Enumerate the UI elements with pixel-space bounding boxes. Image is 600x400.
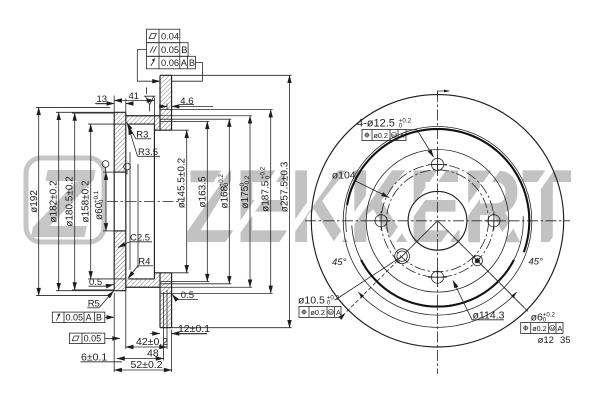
svg-text:0.05: 0.05	[66, 312, 84, 322]
svg-text:I: I	[145, 86, 148, 96]
top feature control frame stack	[147, 29, 180, 43]
circle d104	[387, 170, 489, 272]
svg-text:13: 13	[97, 94, 108, 105]
svg-text:ø182±0.2: ø182±0.2	[49, 180, 60, 223]
right dim extension lines	[172, 74, 292, 76]
svg-text:A: A	[181, 58, 188, 68]
svg-text:0.05: 0.05	[84, 333, 102, 343]
svg-text:ø163.5: ø163.5	[197, 176, 208, 208]
thick arc bottom (d175 edge)	[361, 260, 514, 307]
svg-text:ø257.5±0.3: ø257.5±0.3	[280, 161, 291, 212]
svg-text:ø145.5±0.2: ø145.5±0.2	[177, 157, 188, 208]
svg-text:-0.2: -0.2	[244, 175, 251, 186]
bottom-left FCFs	[52, 312, 105, 323]
svg-text:ø168: ø168	[219, 185, 230, 208]
svg-text:A: A	[336, 308, 341, 317]
svg-text:ø192: ø192	[29, 190, 40, 213]
svg-text:0: 0	[98, 199, 105, 203]
svg-text:0: 0	[327, 299, 331, 306]
watermark ZEKKERT logo block	[26, 149, 104, 258]
hole d10.5 at 225deg	[395, 249, 410, 264]
svg-text:M: M	[329, 310, 333, 315]
section hatch: transition ring top	[154, 124, 160, 130]
FCF leader loop	[137, 50, 151, 82]
svg-text:45°: 45°	[332, 257, 347, 268]
svg-text:0.06: 0.06	[161, 58, 179, 68]
hole d6 at 315deg	[472, 256, 482, 266]
bolt holes 4x d12.5	[428, 155, 447, 174]
svg-text:4-ø12.5: 4-ø12.5	[357, 118, 395, 130]
svg-text:ø60: ø60	[94, 202, 105, 220]
svg-text:12±0.1: 12±0.1	[178, 323, 210, 335]
svg-text:0: 0	[223, 182, 230, 186]
left dim extension lines	[36, 106, 110, 108]
bottom dimensions	[113, 293, 115, 372]
svg-text:ø10.5: ø10.5	[298, 295, 325, 307]
svg-text:A: A	[400, 131, 405, 140]
svg-text:42±0.2: 42±0.2	[136, 336, 168, 348]
svg-text:ø158±0.2: ø158±0.2	[81, 180, 92, 223]
circle d192	[343, 127, 532, 316]
svg-text:ø12: ø12	[538, 335, 554, 346]
centerline left view	[107, 201, 184, 203]
svg-text:ø180.5±0.2: ø180.5±0.2	[65, 176, 76, 227]
hub circle d60	[408, 191, 467, 250]
section outline	[113, 112, 115, 290]
svg-text:45°: 45°	[529, 257, 544, 268]
diameter dimension lines	[38, 107, 40, 295]
svg-text:B: B	[181, 45, 187, 55]
svg-text:ø0.2: ø0.2	[311, 308, 325, 317]
svg-text:0.05: 0.05	[161, 45, 179, 55]
svg-text:ø175: ø175	[240, 185, 251, 208]
circle d187.5 thin (top half)	[346, 129, 530, 232]
top dimensions 13 / 41 / 4.6	[113, 96, 115, 113]
svg-text:ø104: ø104	[332, 170, 356, 182]
right view centerlines	[437, 91, 439, 374]
svg-text:4.6: 4.6	[180, 96, 193, 107]
svg-text:A: A	[558, 324, 563, 333]
outer circle	[311, 95, 563, 347]
svg-text:B: B	[96, 312, 102, 322]
svg-text:A: A	[86, 312, 92, 322]
svg-text:ø187.5: ø187.5	[261, 180, 272, 212]
section hatch: band top	[160, 75, 172, 130]
svg-text:ø6: ø6	[531, 312, 543, 324]
svg-text:0: 0	[399, 122, 403, 129]
svg-text:ø0.2: ø0.2	[532, 324, 546, 333]
datum circles	[102, 161, 109, 168]
rotated diameter labels	[29, 190, 40, 213]
circle d145.5	[366, 150, 509, 293]
svg-text:ø0.2: ø0.2	[374, 131, 388, 140]
svg-text:M: M	[550, 326, 554, 331]
thick arc top (d187.5 edge)	[347, 129, 529, 252]
svg-text:M: M	[392, 133, 396, 138]
45deg radial lines	[402, 221, 437, 256]
bolt circle d114.3	[381, 164, 494, 277]
svg-text:B: B	[189, 58, 195, 68]
thin arc d175 lower half	[352, 216, 524, 306]
section hatch: bottom wall	[126, 279, 160, 287]
section hatch: flange upper part	[114, 112, 126, 172]
section hatch: band bottom	[160, 273, 172, 328]
section hatch: flange lower part	[114, 231, 126, 291]
svg-text:0.04: 0.04	[161, 32, 179, 42]
section hatch: top wall	[126, 116, 160, 124]
svg-text:52±0.2: 52±0.2	[131, 359, 163, 371]
svg-text:48: 48	[147, 348, 159, 360]
svg-text:41: 41	[129, 91, 140, 102]
watermark white slashes	[165, 149, 242, 255]
45deg dimension arc	[358, 292, 516, 327]
svg-text:0: 0	[265, 175, 272, 179]
svg-text:35: 35	[560, 335, 571, 346]
